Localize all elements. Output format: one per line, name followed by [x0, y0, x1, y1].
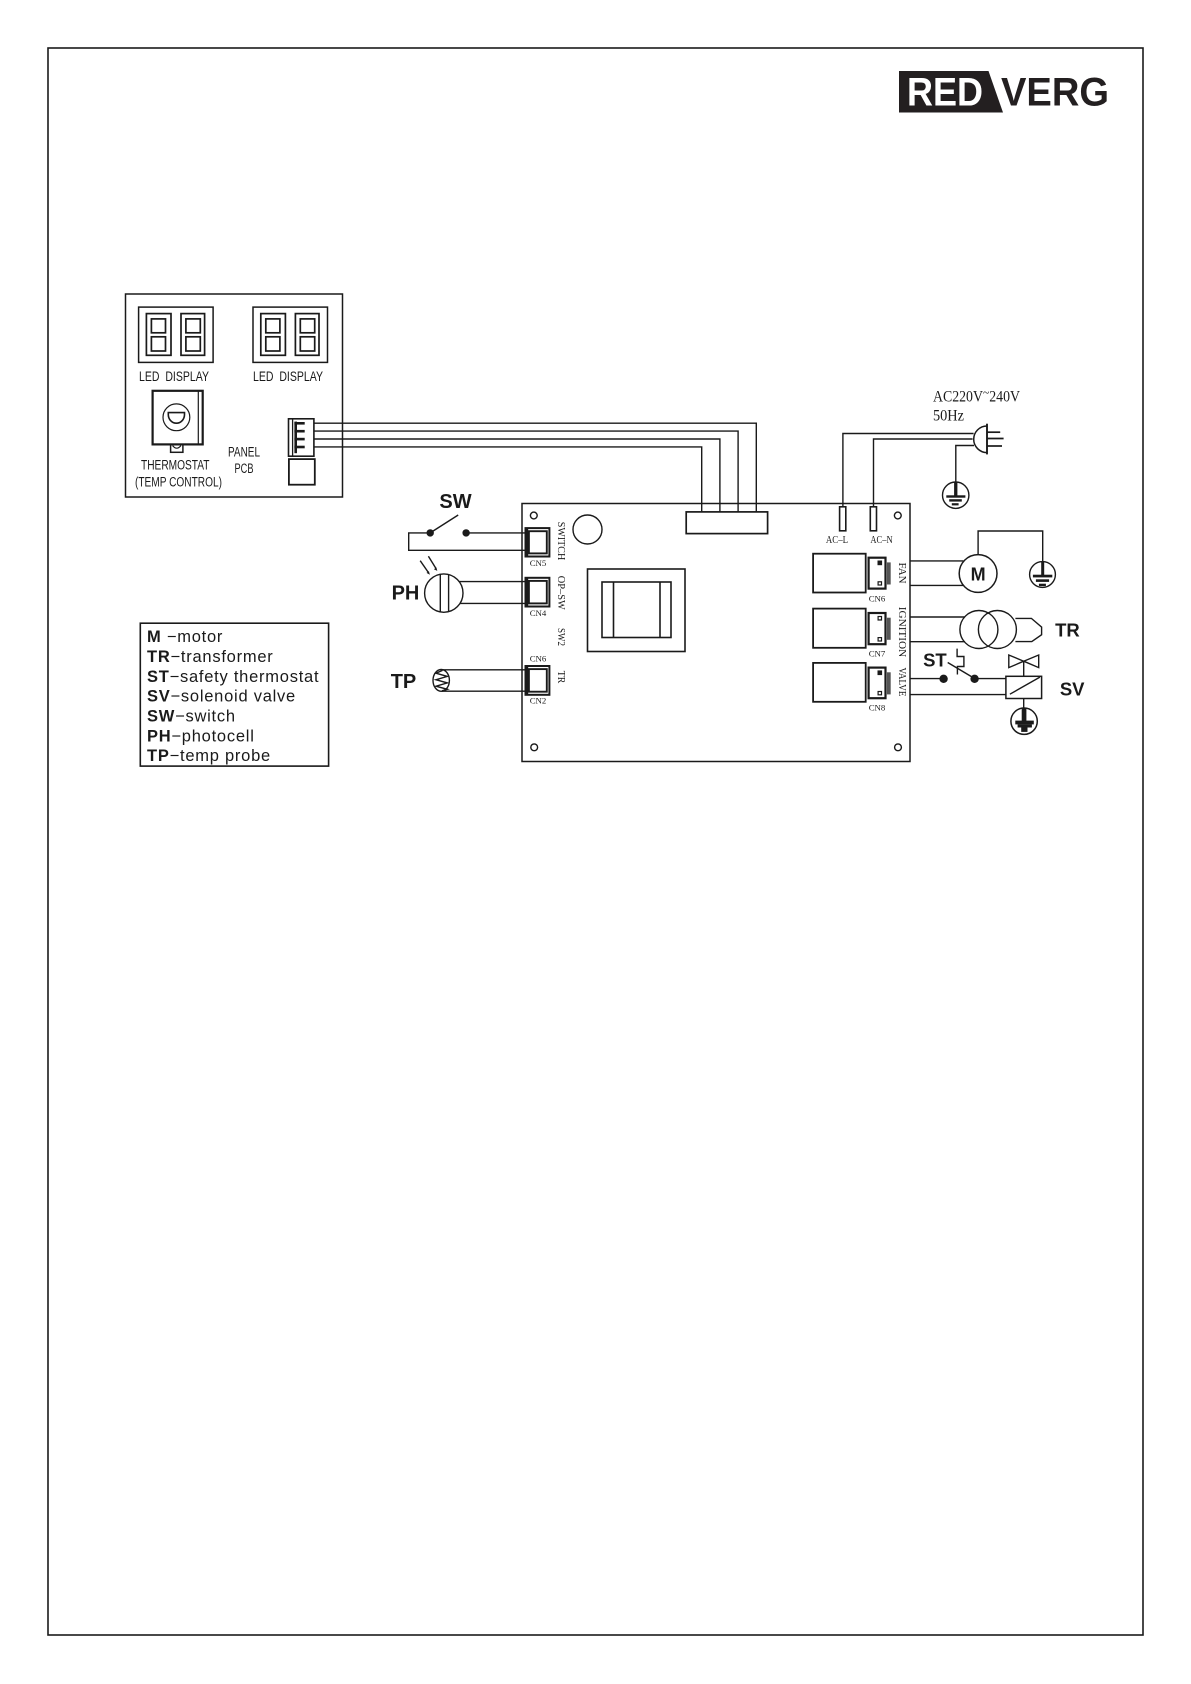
svg-text:LED DISPLAY: LED DISPLAY — [139, 369, 209, 384]
svg-text:PCB: PCB — [235, 461, 254, 476]
svg-text:SW2: SW2 — [555, 628, 566, 646]
svg-text:TP−temp probe: TP−temp probe — [147, 747, 271, 765]
svg-text:AC–L: AC–L — [826, 535, 848, 546]
svg-text:PANEL: PANEL — [228, 445, 260, 460]
panel aux square — [289, 459, 315, 485]
photocell PH — [420, 556, 463, 612]
LED display 2 — [253, 307, 328, 362]
wire panel-to-PCB 4 — [314, 447, 702, 512]
ground (plug earth) — [943, 482, 969, 508]
svg-text:AC220V~240V: AC220V~240V — [933, 385, 1021, 406]
wire IGNITION bottom to TR — [910, 641, 965, 643]
wire AC-N to plug — [874, 439, 973, 507]
relay block IGNITION — [813, 609, 891, 648]
connector CN4 — [526, 578, 550, 607]
svg-text:CN7: CN7 — [869, 649, 886, 659]
svg-text:M: M — [971, 564, 986, 584]
wire VALVE bottom to SV — [910, 694, 1006, 696]
connector CN5 — [526, 528, 550, 556]
svg-text:SV: SV — [1060, 679, 1085, 700]
svg-text:FAN: FAN — [896, 563, 907, 584]
LED display 1 — [139, 307, 214, 362]
wire TP bottom — [442, 690, 526, 692]
wire SW loop — [409, 533, 526, 550]
svg-text:TR: TR — [1055, 619, 1080, 640]
temp probe TP — [433, 670, 449, 692]
wire PH top — [459, 581, 525, 583]
mounting hole top-left — [530, 512, 537, 519]
svg-text:CN2: CN2 — [530, 696, 547, 706]
mounting hole top-right — [894, 512, 901, 519]
svg-text:OP–SW: OP–SW — [555, 576, 566, 611]
wire PH bottom — [460, 602, 526, 604]
svg-text:M −motor: M −motor — [147, 628, 223, 646]
svg-text:SWITCH: SWITCH — [555, 522, 566, 561]
wire AC-L to plug — [843, 434, 974, 507]
fuse AC-N — [870, 507, 876, 531]
main PCB board — [522, 504, 910, 762]
power plug — [974, 424, 1004, 455]
svg-text:(TEMP CONTROL): (TEMP CONTROL) — [135, 475, 222, 490]
svg-text:CN8: CN8 — [869, 703, 886, 713]
svg-text:CN6: CN6 — [530, 654, 547, 664]
svg-text:IGNITION: IGNITION — [896, 607, 907, 658]
svg-text:TR: TR — [555, 671, 566, 684]
wire TP top — [442, 669, 526, 671]
solenoid valve SV — [1006, 676, 1042, 698]
svg-text:VERG: VERG — [1001, 71, 1109, 115]
wire IGNITION top to TR — [910, 616, 965, 618]
ground (SV, filled) — [1011, 708, 1037, 734]
wire SW top — [466, 532, 525, 534]
mounting hole bottom-right — [895, 744, 902, 751]
wire SV to ground — [1023, 699, 1025, 709]
svg-text:SW−switch: SW−switch — [147, 708, 236, 726]
legend box — [140, 623, 328, 766]
svg-text:PH−photocell: PH−photocell — [147, 728, 255, 746]
svg-text:PH: PH — [392, 583, 420, 605]
svg-text:ST−safety thermostat: ST−safety thermostat — [147, 668, 319, 686]
relay block FAN — [813, 554, 891, 593]
svg-text:SW: SW — [439, 491, 471, 513]
thermostat knob — [153, 391, 203, 453]
fuse AC-L — [840, 507, 846, 531]
svg-text:VALVE: VALVE — [896, 668, 907, 697]
svg-text:THERMOSTAT: THERMOSTAT — [141, 458, 210, 473]
ground (motor) — [1030, 561, 1056, 587]
panel PCB box — [126, 294, 343, 497]
valve symbol — [1009, 655, 1039, 676]
transformer block on PCB — [588, 569, 686, 652]
svg-text:CN6: CN6 — [869, 594, 886, 604]
wire FAN bottom to motor — [910, 584, 963, 586]
wire FAN top to motor — [910, 560, 963, 562]
svg-text:ST: ST — [923, 649, 947, 670]
svg-text:RED: RED — [907, 71, 983, 115]
PCB top connector — [686, 512, 767, 534]
transformer TR — [960, 611, 1042, 649]
svg-text:50Hz: 50Hz — [933, 408, 964, 425]
svg-text:TP: TP — [391, 671, 417, 693]
switch SW — [427, 515, 470, 537]
svg-text:SV−solenoid valve: SV−solenoid valve — [147, 688, 296, 706]
relay block VALVE — [813, 663, 891, 702]
svg-text:CN5: CN5 — [530, 558, 547, 568]
PCB hole — [573, 515, 602, 544]
wire motor to ground — [978, 531, 1043, 562]
REDVERG logo — [899, 71, 1109, 115]
wire panel-to-PCB 2 — [314, 431, 738, 512]
connector CN2 — [526, 666, 550, 695]
wire panel-to-PCB 1 — [314, 423, 756, 512]
wire plug earth — [956, 446, 974, 483]
wire panel-to-PCB 3 — [314, 439, 720, 512]
wire VALVE to ST — [910, 678, 940, 680]
svg-text:LED DISPLAY: LED DISPLAY — [253, 369, 323, 384]
svg-text:CN4: CN4 — [530, 608, 547, 618]
mounting hole bottom-left — [531, 744, 538, 751]
svg-text:AC–N: AC–N — [870, 535, 892, 546]
wire ST to SV — [978, 678, 1006, 680]
motor M — [959, 555, 997, 593]
safety thermostat ST — [939, 649, 978, 683]
svg-text:TR−transformer: TR−transformer — [147, 648, 274, 666]
panel connector (comb) — [289, 419, 314, 456]
